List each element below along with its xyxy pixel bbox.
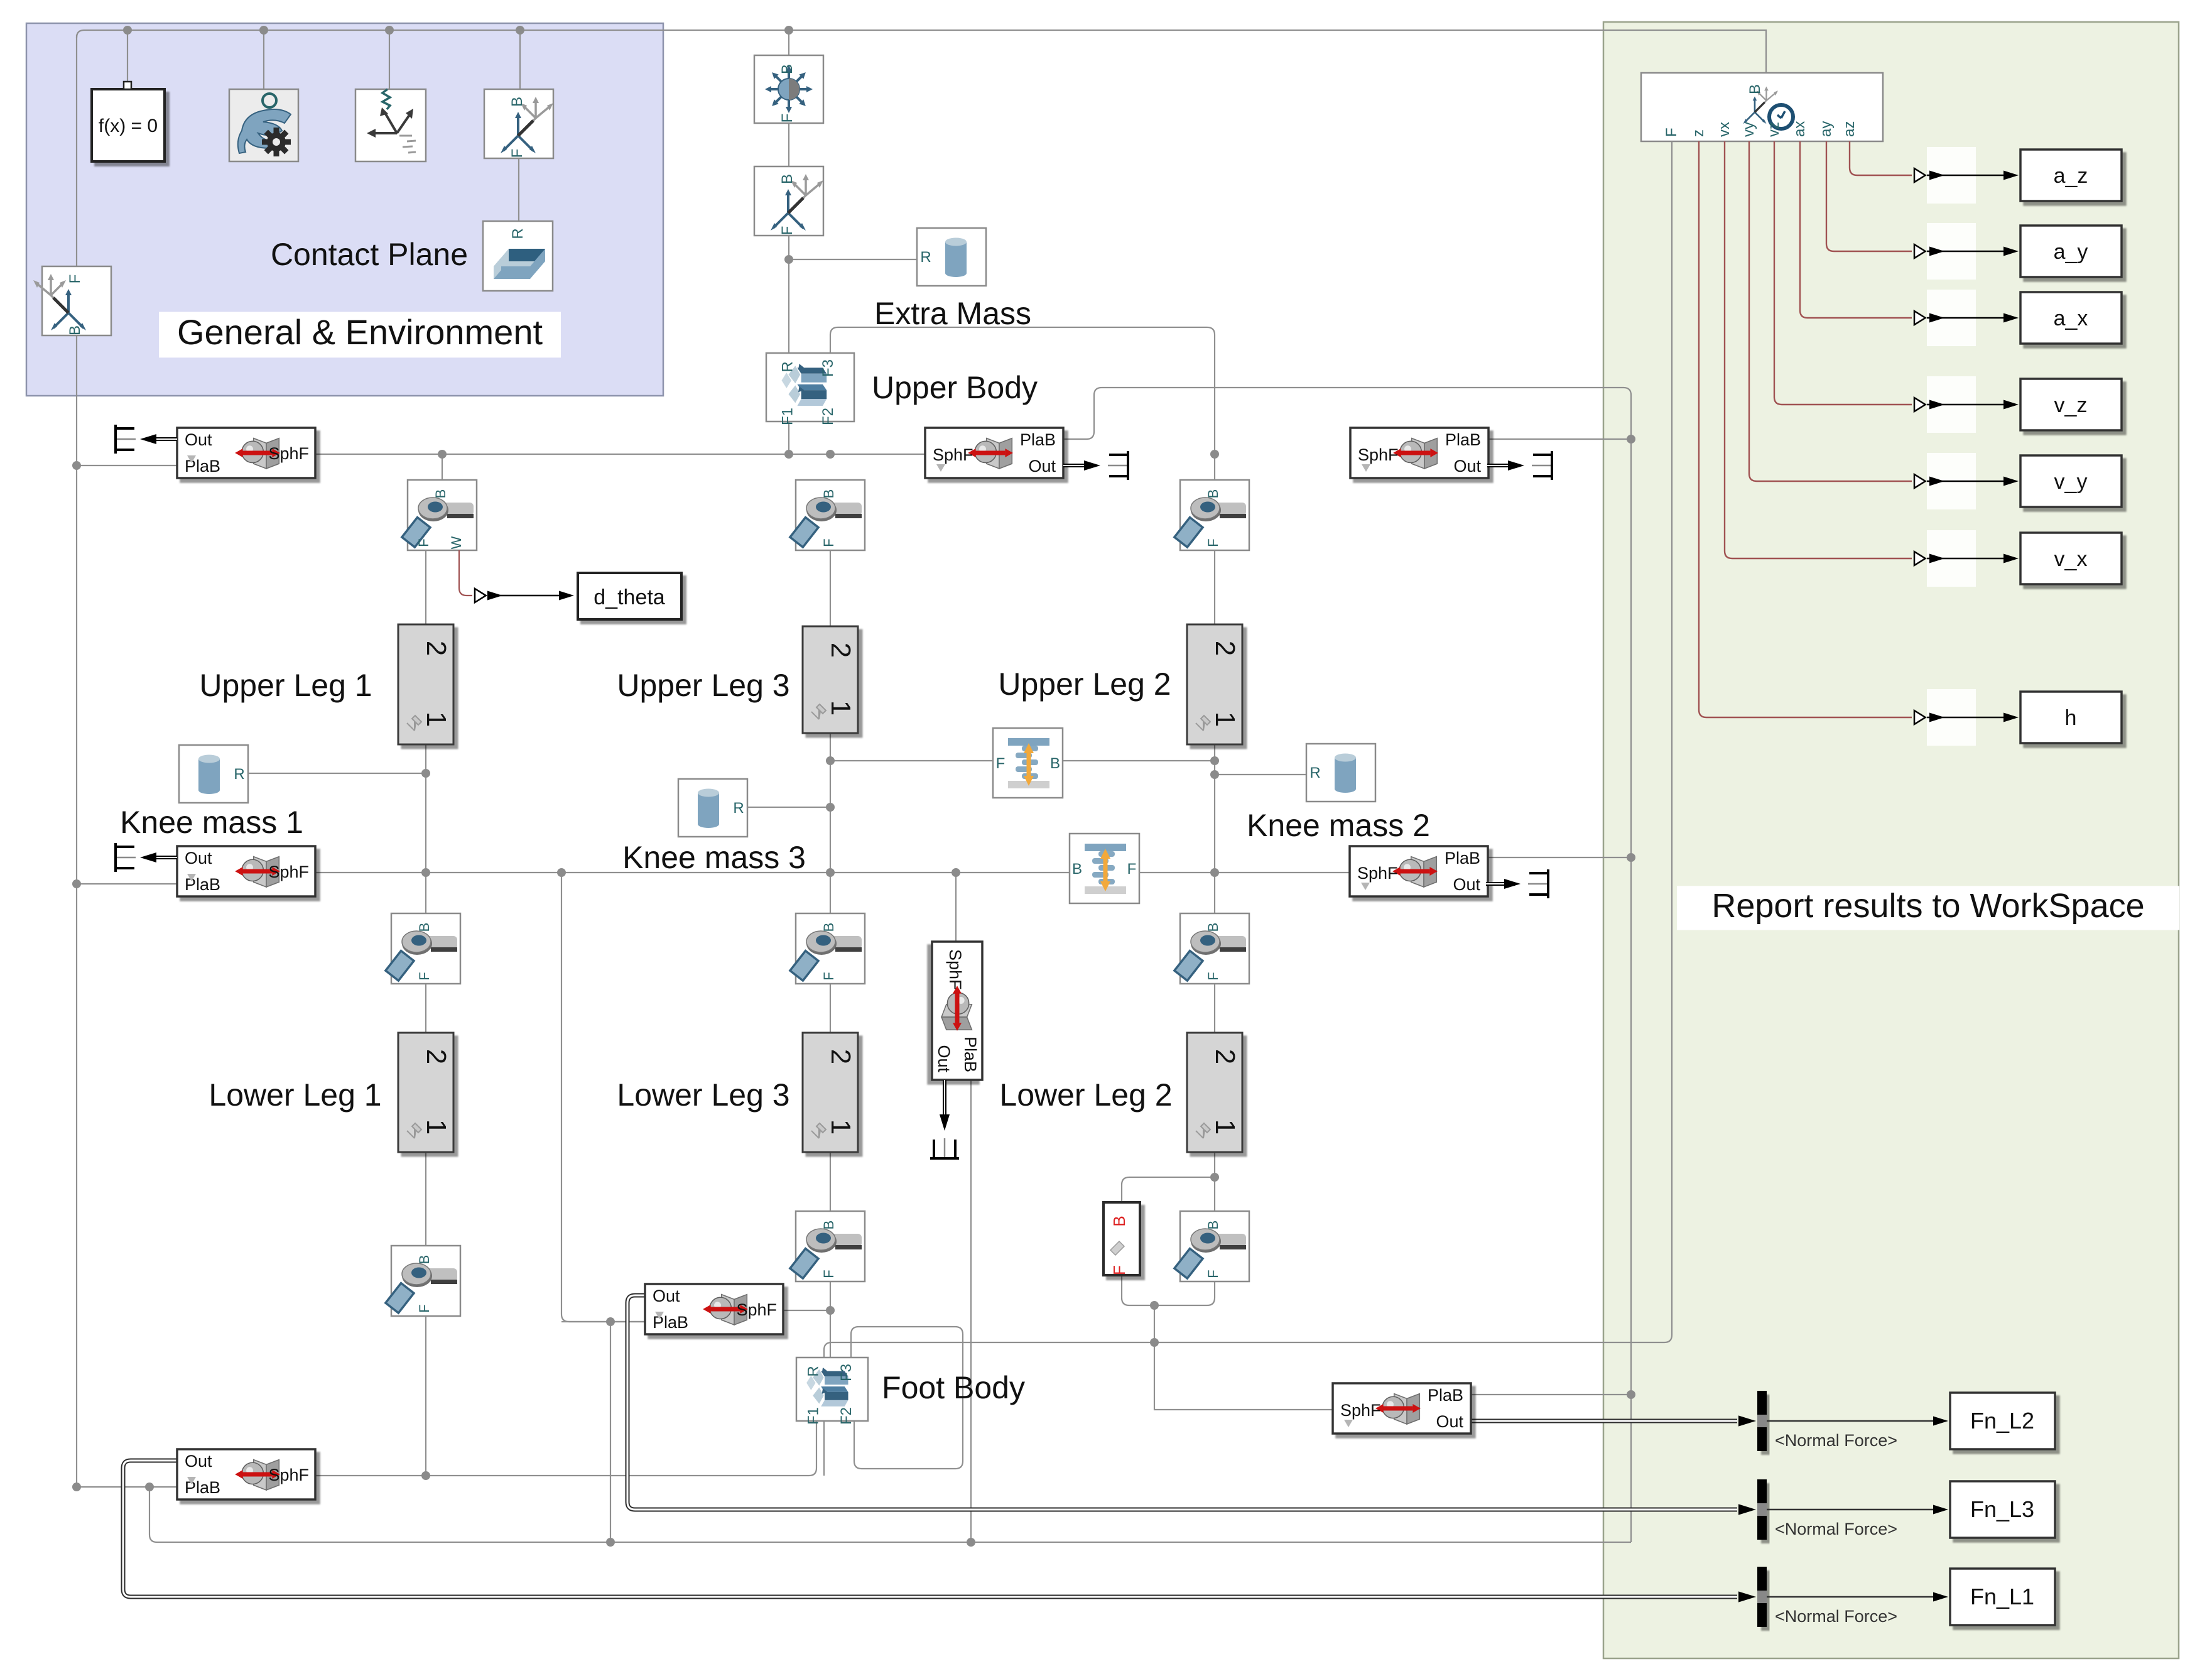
svg-text:Fn_L1: Fn_L1	[1970, 1584, 2034, 1609]
junction	[1210, 756, 1219, 765]
ankle revolute joint leg3	[790, 1211, 865, 1281]
spatial contact force leg2 upper	[1350, 428, 1488, 478]
knee mass 3 block	[678, 779, 747, 837]
svg-text:Lower Leg 3: Lower Leg 3	[617, 1077, 789, 1113]
junction	[784, 255, 793, 264]
svg-text:h: h	[2065, 706, 2077, 730]
junction	[421, 868, 430, 877]
foot body block	[796, 1358, 868, 1425]
svg-text:Upper Leg 2: Upper Leg 2	[998, 667, 1171, 702]
wire Fn_L2 to outport	[1767, 1420, 1934, 1422]
svg-text:SphF: SphF	[268, 444, 309, 463]
wire hip1 W sensing	[459, 550, 472, 596]
outport Fn_L2	[1950, 1393, 2055, 1449]
junction	[1150, 1301, 1159, 1310]
lower leg 1 body	[398, 1033, 453, 1152]
spatial contact force knee2	[1350, 846, 1488, 896]
svg-text:R: R	[234, 766, 244, 783]
svg-text:vx: vx	[1716, 122, 1733, 137]
junction	[967, 1538, 975, 1547]
spatial contact force leg1 upper	[177, 428, 315, 478]
svg-text:B: B	[1205, 1221, 1221, 1230]
svg-text:SphF: SphF	[736, 1300, 777, 1319]
svg-text:Out: Out	[185, 430, 212, 449]
wire knee mass3 R	[747, 807, 830, 808]
svg-text:<Normal Force>: <Normal Force>	[1775, 1520, 1897, 1538]
wire lower leg1 to ankle1	[425, 1152, 426, 1246]
General &amp; Environment label	[159, 312, 561, 357]
junction	[72, 461, 81, 470]
left base transform	[33, 266, 111, 335]
Report results to WorkSpace label	[1677, 886, 2179, 930]
junction	[1627, 853, 1635, 862]
junction	[1210, 1173, 1219, 1182]
wire sphf mid stem	[955, 873, 957, 942]
wire sensor h	[1699, 141, 1912, 717]
svg-text:F: F	[821, 538, 837, 547]
svg-text:F2: F2	[838, 1407, 855, 1425]
hip revolute joint leg3	[790, 480, 865, 550]
svg-text:a_y: a_y	[2054, 240, 2088, 264]
svg-text:az: az	[1841, 121, 1858, 137]
svg-text:a_z: a_z	[2054, 164, 2088, 188]
svg-text:F: F	[509, 149, 526, 158]
junction	[826, 450, 835, 459]
spatial contact force leg2 bottom	[1333, 1383, 1471, 1434]
outport v_y	[2020, 455, 2122, 507]
rate transition a_z	[1927, 147, 1976, 204]
svg-text:F: F	[67, 275, 84, 284]
junction	[72, 879, 81, 888]
svg-text:F: F	[779, 114, 796, 123]
rigid transform above contact plane	[484, 89, 553, 158]
outport a_z	[2020, 150, 2122, 201]
outport a_y	[2020, 226, 2122, 277]
hip revolute joint leg2	[1174, 480, 1249, 550]
svg-text:1: 1	[825, 1119, 856, 1135]
svg-text:2: 2	[421, 1049, 452, 1064]
wire sensor v_y	[1749, 141, 1912, 481]
junction	[516, 26, 524, 35]
knee revolute joint leg1	[386, 913, 460, 984]
wire 6dof stem	[788, 30, 789, 55]
knee mass 1 block	[179, 745, 248, 803]
svg-text:1: 1	[825, 700, 856, 716]
svg-text:d_theta: d_theta	[594, 585, 665, 609]
svg-text:F: F	[821, 1270, 837, 1278]
junction	[606, 1317, 615, 1326]
wire sphf L2 PlaB	[1471, 1394, 1631, 1395]
ankle revolute joint leg2	[1174, 1211, 1249, 1281]
world frame block	[355, 89, 426, 161]
bus out bottom sphf to Fn_L1	[123, 1461, 1737, 1597]
wire x1838 down to sphf L2	[1154, 1305, 1333, 1410]
svg-text:2: 2	[1210, 641, 1240, 656]
spatial contact force leg3 mid (rotated)	[932, 942, 982, 1080]
svg-text:PlaB: PlaB	[1445, 430, 1481, 449]
bus selector Fn_L1	[1757, 1567, 1767, 1627]
svg-text:v_x: v_x	[2054, 547, 2088, 571]
wire ankle3 F to foot body R	[830, 1280, 831, 1358]
wire lower leg3 to ankle3	[830, 1152, 831, 1211]
svg-text:R: R	[805, 1366, 822, 1376]
wire sphf knee1 PlaB	[77, 883, 177, 884]
transform sensor block	[1641, 73, 1883, 141]
wire Fn_L1 to outport	[1767, 1596, 1934, 1598]
svg-text:F2: F2	[820, 408, 837, 425]
lower leg 2 body	[1187, 1033, 1242, 1152]
svg-text:ay: ay	[1818, 121, 1835, 137]
svg-text:2: 2	[825, 643, 856, 658]
terminator leg3 mid out	[943, 1080, 946, 1125]
bus out foot sphf to Fn_L3	[627, 1295, 1737, 1510]
rate transition v_z	[1927, 376, 1976, 433]
knee mass 2 block	[1306, 744, 1375, 802]
wire knee2 F to lower leg2	[1214, 982, 1215, 1033]
knee revolute joint leg3	[790, 913, 865, 984]
wire red transform F down	[1122, 1275, 1154, 1305]
wire world frame stem	[389, 30, 390, 89]
bus selector Fn_L3	[1757, 1479, 1767, 1540]
junction	[421, 769, 430, 778]
solver f(x)=0 block	[92, 82, 165, 161]
lower leg 3 body	[803, 1033, 858, 1152]
svg-text:B: B	[1205, 923, 1221, 932]
svg-text:SphF: SphF	[1340, 1401, 1381, 1420]
svg-text:Out: Out	[1028, 457, 1056, 476]
svg-text:B: B	[509, 97, 526, 107]
svg-text:Report results to WorkSpace: Report results to WorkSpace	[1711, 887, 2144, 925]
svg-text:Out: Out	[185, 1452, 212, 1471]
svg-text:SphF: SphF	[1357, 864, 1398, 883]
svg-text:F: F	[1205, 972, 1221, 980]
wire foot body F3 loop	[851, 1327, 963, 1469]
wire top frame bus	[77, 30, 1766, 73]
svg-text:B: B	[1072, 861, 1082, 878]
signal conversion h	[1914, 710, 1926, 724]
rate transition v_x	[1927, 530, 1976, 587]
junction	[259, 26, 268, 35]
upper leg 1 body	[398, 624, 453, 744]
spatial contact force foot	[645, 1284, 783, 1334]
svg-text:R: R	[1309, 765, 1320, 781]
mechanism configuration block	[229, 89, 298, 161]
svg-text:v_z: v_z	[2054, 393, 2088, 417]
wire ankle2 F down	[1154, 1280, 1215, 1305]
svg-text:<Normal Force>: <Normal Force>	[1775, 1607, 1897, 1626]
upper body block	[766, 353, 854, 425]
svg-text:1: 1	[1210, 712, 1240, 727]
upper leg 3 body	[803, 626, 858, 733]
wire transform1 to contact plane	[518, 158, 519, 221]
svg-text:F3: F3	[838, 1364, 855, 1381]
upper leg 2 body	[1187, 624, 1242, 744]
svg-text:B: B	[416, 923, 432, 932]
svg-text:B: B	[1205, 489, 1221, 499]
wire upper spring row	[830, 760, 1215, 761]
six dof joint block	[754, 55, 823, 123]
junction	[1150, 1338, 1159, 1347]
outport h	[2020, 692, 2122, 743]
signal conversion v_y	[1914, 474, 1926, 488]
junction	[72, 1483, 81, 1491]
wire sensor v_z	[1774, 141, 1912, 405]
wire upper body F1 down	[788, 422, 789, 454]
junction	[826, 868, 835, 877]
wire knee mass2 R	[1215, 774, 1306, 775]
svg-text:F: F	[821, 972, 837, 980]
junction	[826, 1306, 835, 1315]
junction	[385, 26, 394, 35]
svg-text:Out: Out	[1453, 875, 1480, 894]
svg-text:F: F	[416, 538, 431, 547]
svg-text:2: 2	[825, 1049, 856, 1064]
svg-text:F: F	[416, 1304, 432, 1312]
svg-text:B: B	[779, 64, 796, 74]
svg-text:R: R	[733, 800, 744, 817]
svg-text:PlaB: PlaB	[1428, 1386, 1463, 1405]
wire knee row	[315, 872, 1350, 873]
wire leg2 bypass to red transform	[1122, 1177, 1215, 1202]
wire bottom sphf right to foot F1	[315, 1421, 816, 1476]
svg-text:SphF: SphF	[1358, 445, 1399, 464]
junction	[1210, 770, 1219, 779]
wire x238 drop to bottom frame line	[149, 1487, 1631, 1542]
spatial contact force upper body	[925, 428, 1063, 478]
svg-text:F: F	[1127, 861, 1137, 878]
svg-text:B: B	[821, 923, 837, 932]
svg-text:Lower Leg 1: Lower Leg 1	[209, 1077, 381, 1113]
svg-text:Upper Leg 3: Upper Leg 3	[617, 668, 789, 703]
svg-text:PlaB: PlaB	[961, 1037, 980, 1072]
junction	[826, 803, 835, 812]
svg-text:<Normal Force>: <Normal Force>	[1775, 1431, 1897, 1450]
bus arrowhead	[1738, 1415, 1756, 1426]
svg-text:B: B	[1050, 755, 1060, 772]
svg-text:R: R	[920, 249, 931, 266]
svg-text:B: B	[433, 489, 448, 499]
spatial contact force knee1	[177, 846, 315, 896]
rate transition a_y	[1927, 223, 1976, 280]
signal wire to d_theta	[487, 595, 568, 597]
rigid transform below six dof	[754, 166, 823, 236]
junction	[557, 868, 566, 877]
wire transform2 to upper body R	[788, 236, 789, 353]
svg-text:Out: Out	[1453, 457, 1481, 476]
svg-text:W: W	[448, 536, 464, 549]
svg-text:f(x) = 0: f(x) = 0	[99, 116, 158, 136]
signal conversion v_x	[1914, 552, 1926, 565]
contact plane block	[483, 221, 553, 291]
signal conversion triangle hip1 w	[475, 589, 486, 602]
svg-text:Contact Plane: Contact Plane	[271, 237, 468, 272]
signal conversion a_x	[1914, 311, 1926, 325]
svg-text:Fn_L2: Fn_L2	[1970, 1408, 2034, 1434]
wire Fn_L3 to outport	[1767, 1509, 1934, 1511]
svg-text:Extra Mass: Extra Mass	[874, 296, 1031, 331]
wire sphf UL1 PlaB	[77, 465, 177, 466]
signal conversion v_z	[1914, 398, 1926, 411]
wire lower leg2 to ankle2	[1214, 1152, 1215, 1211]
wire hip1 F to upper leg 1	[425, 550, 426, 624]
svg-text:SphF: SphF	[268, 1466, 309, 1484]
ankle revolute joint leg1	[386, 1246, 460, 1316]
wire left vertical PlaB frame	[77, 35, 177, 1487]
svg-text:z: z	[1690, 129, 1707, 137]
svg-text:B: B	[1747, 84, 1764, 94]
svg-text:SphF: SphF	[946, 949, 965, 990]
extra mass block	[917, 228, 986, 286]
wire knee1 F to lower leg1	[425, 982, 426, 1033]
wire mech config stem	[263, 30, 264, 89]
outport v_x	[2020, 533, 2122, 584]
terminator leg1 upper out	[146, 437, 177, 441]
bus arrowhead	[1738, 1591, 1756, 1602]
wire upper leg3 to knee3	[830, 733, 831, 913]
svg-text:B: B	[821, 1221, 837, 1230]
wire f(x) stem	[127, 30, 128, 84]
outport a_x	[2020, 292, 2122, 344]
outport v_z	[2020, 379, 2122, 430]
hip revolute joint leg1	[402, 480, 477, 550]
junction	[438, 450, 447, 459]
svg-text:v_y: v_y	[2054, 470, 2088, 494]
junction	[1210, 450, 1219, 459]
svg-text:a_x: a_x	[2054, 307, 2088, 330]
svg-text:F: F	[1205, 538, 1221, 547]
knee spring damper lower	[1070, 834, 1139, 903]
wire foot sphf right	[783, 1310, 830, 1311]
wire upper body PlaB to x2597	[1063, 388, 1631, 1542]
svg-text:F: F	[996, 755, 1006, 772]
wire sensor a_y	[1826, 141, 1912, 251]
junction	[145, 1483, 154, 1491]
wire hip row A	[315, 454, 925, 455]
wire knee3 F to lower leg3	[830, 982, 831, 1033]
svg-text:Knee mass 1: Knee mass 1	[120, 805, 303, 840]
svg-text:vy: vy	[1740, 122, 1757, 137]
svg-text:B: B	[67, 325, 84, 335]
svg-text:PlaB: PlaB	[1020, 430, 1056, 449]
wire sensor a_z	[1850, 141, 1912, 175]
wire foot sphf PlaB left	[561, 1321, 645, 1322]
wire hip3 F to upper leg 3	[830, 549, 831, 626]
wire hip1 B stem	[442, 454, 443, 480]
svg-text:1: 1	[1210, 1119, 1240, 1135]
wire upper leg1 to knee1	[425, 744, 426, 913]
wire sphf2 PlaB	[1487, 438, 1631, 440]
wire ankle1 F down to foot row	[425, 1315, 426, 1476]
terminator upper body out	[1063, 464, 1095, 467]
rate transition v_y	[1927, 453, 1976, 509]
bus arrowhead	[1738, 1504, 1756, 1515]
svg-text:vz: vz	[1765, 122, 1782, 137]
svg-text:ax: ax	[1791, 121, 1808, 137]
Report results to WorkSpace area panel	[1603, 22, 2179, 1658]
svg-text:F3: F3	[820, 359, 837, 377]
junction	[784, 450, 793, 459]
wire sphf mid PlaB drop	[970, 1080, 972, 1542]
svg-text:SphF: SphF	[268, 862, 309, 881]
svg-text:R: R	[509, 228, 526, 239]
terminator knee1 out	[146, 856, 177, 859]
disabled rigid transform leg2 (red ports)	[1103, 1202, 1140, 1275]
wire upper body F3 loop to leg2 top	[830, 327, 1215, 480]
junction	[1627, 1390, 1635, 1399]
junction	[826, 756, 835, 765]
spatial contact force leg1 bottom	[177, 1449, 315, 1499]
junction	[1627, 435, 1635, 443]
svg-text:F1: F1	[805, 1407, 822, 1425]
wire upper leg2 to knee2	[1214, 744, 1215, 913]
wire knee mass1 R	[248, 773, 426, 774]
svg-text:B: B	[1110, 1216, 1129, 1226]
terminator leg2 upper out	[1487, 464, 1519, 467]
svg-text:F: F	[1205, 1270, 1221, 1278]
svg-text:F: F	[779, 226, 796, 236]
svg-text:Foot Body: Foot Body	[882, 1370, 1025, 1405]
svg-text:F: F	[1110, 1265, 1129, 1275]
wire extra mass branch	[789, 259, 917, 260]
wire transform1 stem	[519, 30, 521, 89]
svg-text:1: 1	[421, 712, 452, 727]
junction	[951, 868, 960, 877]
svg-text:Out: Out	[185, 849, 212, 868]
svg-text:Out: Out	[935, 1045, 953, 1072]
signal conversion a_z	[1914, 168, 1926, 182]
junction	[784, 26, 793, 35]
svg-text:F: F	[416, 972, 432, 980]
svg-text:2: 2	[1210, 1049, 1240, 1064]
svg-text:Out: Out	[1436, 1412, 1463, 1431]
outport Fn_L3	[1950, 1481, 2055, 1538]
bus selector Fn_L2	[1757, 1391, 1767, 1451]
svg-text:B: B	[779, 174, 796, 184]
svg-text:B: B	[416, 1255, 432, 1265]
svg-text:Knee mass 3: Knee mass 3	[622, 840, 806, 875]
junction	[606, 1538, 615, 1547]
wire hip2 F to upper leg 2	[1214, 549, 1215, 624]
svg-text:Lower Leg 2: Lower Leg 2	[999, 1077, 1172, 1113]
rate transition a_x	[1927, 290, 1976, 346]
svg-text:Upper Leg 1: Upper Leg 1	[199, 668, 372, 703]
svg-text:F: F	[1663, 128, 1680, 137]
svg-text:1: 1	[421, 1119, 452, 1135]
rate transition h	[1927, 689, 1976, 746]
General & Environment area panel	[26, 23, 663, 396]
svg-text:R: R	[779, 361, 796, 372]
wire sphf knee2 PlaB	[1486, 857, 1631, 858]
svg-text:2: 2	[421, 641, 452, 656]
wire sensor a_x	[1800, 141, 1912, 318]
d_theta outport block	[578, 573, 681, 619]
junction	[421, 1471, 430, 1480]
svg-text:PlaB: PlaB	[1445, 849, 1480, 868]
svg-text:General & Environment: General & Environment	[177, 312, 543, 352]
knee revolute joint leg2	[1174, 913, 1249, 984]
svg-text:Fn_L3: Fn_L3	[1970, 1496, 2034, 1522]
wire x972 drop	[610, 1322, 611, 1542]
bus out sphf L2 to Fn_L2	[1471, 1419, 1737, 1423]
junction	[1210, 868, 1219, 877]
svg-text:SphF: SphF	[933, 445, 973, 464]
outport Fn_L1	[1950, 1569, 2055, 1625]
svg-text:Out: Out	[653, 1287, 680, 1305]
svg-text:Knee mass 2: Knee mass 2	[1247, 808, 1430, 843]
wire 6dof to transform2	[788, 122, 789, 166]
signal conversion a_y	[1914, 244, 1926, 258]
wire sensor v_x	[1725, 141, 1912, 558]
